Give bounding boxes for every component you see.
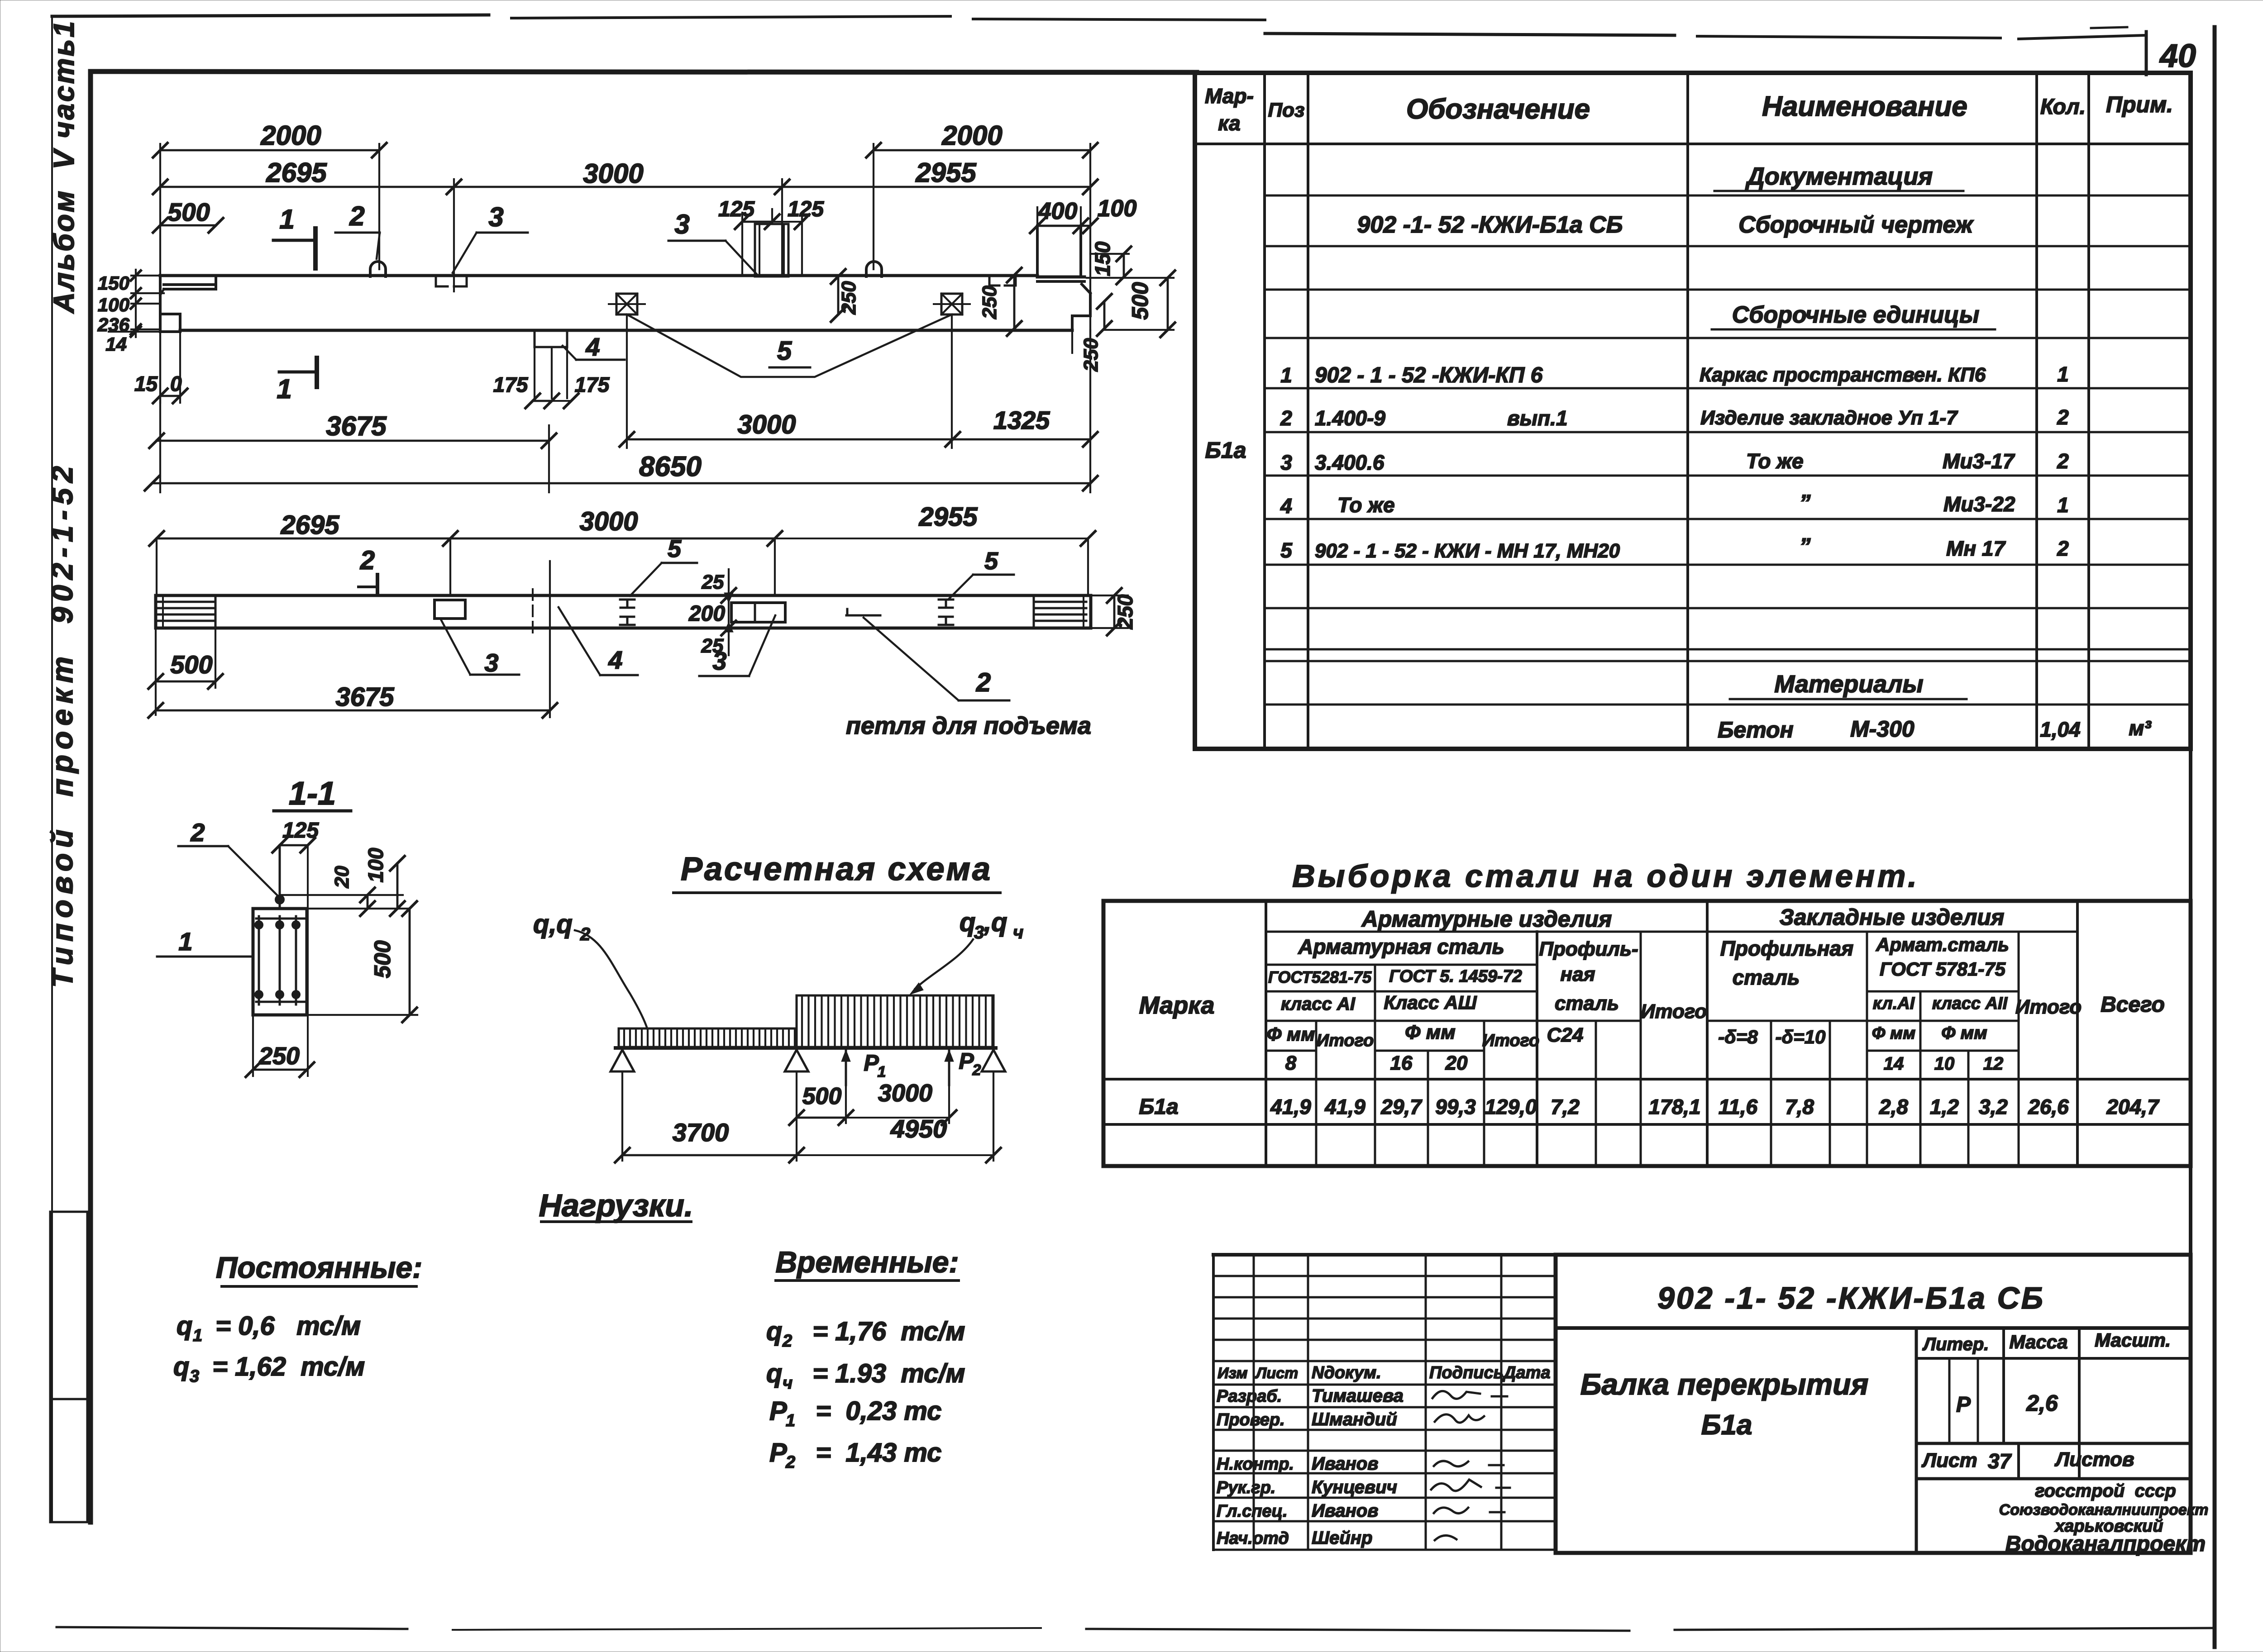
svg-text:3: 3 — [674, 209, 689, 239]
svg-text:Класс АШ: Класс АШ — [1384, 992, 1477, 1013]
svg-text:1: 1 — [2057, 362, 2069, 386]
svg-text:3: 3 — [190, 1367, 199, 1386]
svg-text:Сборочный чертеж: Сборочный чертеж — [1738, 212, 1974, 238]
svg-text:14: 14 — [1884, 1054, 1904, 1074]
svg-text:175: 175 — [493, 373, 529, 396]
svg-text:Листов: Листов — [2054, 1448, 2134, 1471]
svg-text:Nдокум.: Nдокум. — [1312, 1363, 1381, 1382]
svg-text:P: P — [769, 1396, 787, 1426]
svg-text:26,6: 26,6 — [2028, 1095, 2069, 1119]
svg-text:100: 100 — [98, 294, 129, 315]
svg-text:1: 1 — [878, 1063, 886, 1081]
svg-text:= 0,6 тс/м: = 0,6 тс/м — [208, 1311, 361, 1341]
svg-text:Закладные изделия: Закладные изделия — [1780, 905, 2005, 930]
svg-text:Нагрузки.: Нагрузки. — [539, 1188, 693, 1223]
svg-text:q: q — [766, 1359, 782, 1388]
svg-text:Водоканалпроект: Водоканалпроект — [2005, 1532, 2206, 1556]
svg-text:Материалы: Материалы — [1774, 671, 1923, 698]
svg-text:Изм: Изм — [1217, 1365, 1248, 1382]
svg-text:3000: 3000 — [737, 410, 796, 439]
svg-text:2695: 2695 — [280, 510, 339, 540]
svg-text:Наименование: Наименование — [1762, 91, 1967, 122]
svg-text:16: 16 — [1390, 1052, 1413, 1074]
svg-text:P: P — [864, 1050, 879, 1076]
svg-text:5: 5 — [984, 547, 998, 575]
svg-text:1: 1 — [2057, 493, 2069, 517]
svg-text:2: 2 — [2057, 537, 2069, 560]
svg-text:Выборка стали на один элеме: Выборка стали на один элемент. — [1292, 858, 1919, 894]
svg-text:вып.1: вып.1 — [1507, 406, 1568, 430]
svg-text:7,2: 7,2 — [1551, 1095, 1580, 1119]
svg-text:1325: 1325 — [993, 406, 1050, 434]
svg-text:2: 2 — [1280, 406, 1292, 430]
svg-text:150: 150 — [98, 272, 129, 294]
svg-text:м³: м³ — [2129, 716, 2152, 740]
svg-text:500: 500 — [170, 650, 212, 679]
svg-text:-δ=10: -δ=10 — [1776, 1026, 1826, 1047]
svg-text:Б1а: Б1а — [1205, 438, 1246, 463]
svg-text:3000: 3000 — [579, 507, 638, 536]
svg-text:Итого: Итого — [1641, 1000, 1707, 1023]
svg-text:1: 1 — [178, 927, 192, 956]
svg-text:Подпись: Подпись — [1429, 1363, 1504, 1382]
svg-text:5: 5 — [1280, 538, 1293, 562]
svg-text:4: 4 — [1280, 494, 1292, 518]
svg-text:Б1а: Б1а — [1701, 1409, 1752, 1441]
svg-text:Арматурные изделия: Арматурные изделия — [1361, 906, 1612, 932]
svg-text:Расчетная схема: Расчетная схема — [681, 851, 992, 887]
svg-text:Каркас пространствен. КП6: Каркас пространствен. КП6 — [1700, 364, 1986, 386]
svg-text:3: 3 — [488, 202, 503, 232]
svg-text:Итого: Итого — [1482, 1031, 1539, 1050]
svg-text:41,9: 41,9 — [1270, 1095, 1311, 1119]
svg-text:5: 5 — [668, 535, 682, 562]
svg-text:500: 500 — [370, 940, 395, 978]
svg-text:125: 125 — [788, 197, 824, 221]
svg-text:q: q — [766, 1317, 782, 1346]
svg-text:Лист: Лист — [1921, 1449, 1977, 1471]
svg-text:Шейнр: Шейнр — [1312, 1528, 1372, 1548]
svg-text:14: 14 — [105, 333, 127, 355]
svg-text:250: 250 — [1113, 594, 1137, 629]
svg-text:500: 500 — [1127, 282, 1153, 320]
svg-text:Типовой проект 902-1-52: Типовой проект 902-1-52 — [45, 461, 79, 988]
svg-text:10: 10 — [1934, 1054, 1955, 1074]
svg-text:1.400-9: 1.400-9 — [1315, 406, 1385, 430]
svg-text:-δ=8: -δ=8 — [1718, 1026, 1758, 1047]
svg-text:2: 2 — [2057, 405, 2069, 429]
svg-text:2000: 2000 — [941, 120, 1002, 151]
svg-text:4: 4 — [608, 646, 622, 674]
svg-text:Ф мм: Ф мм — [1872, 1024, 1915, 1043]
svg-text:М-300: М-300 — [1850, 716, 1914, 742]
svg-text:q: q — [960, 908, 975, 937]
svg-text:2: 2 — [972, 1062, 981, 1079]
svg-text:С24: С24 — [1547, 1024, 1584, 1046]
svg-text:902 -1- 52 -КЖИ-Б1а СБ: 902 -1- 52 -КЖИ-Б1а СБ — [1357, 212, 1623, 238]
svg-text:3: 3 — [1280, 451, 1292, 474]
svg-text:11,6: 11,6 — [1719, 1095, 1758, 1119]
svg-text:Профильная: Профильная — [1720, 937, 1853, 960]
svg-text:Постоянные:: Постоянные: — [216, 1251, 422, 1284]
svg-text:= 1,62 тс/м: = 1,62 тс/м — [205, 1352, 365, 1381]
svg-text:Ф мм: Ф мм — [1267, 1024, 1315, 1045]
svg-text:Б1а: Б1а — [1139, 1095, 1178, 1119]
svg-text:1: 1 — [193, 1326, 202, 1345]
svg-text:Поз: Поз — [1268, 99, 1305, 121]
svg-text:кл.АІ: кл.АІ — [1873, 994, 1915, 1013]
svg-text:2955: 2955 — [918, 502, 978, 532]
svg-text:1,2: 1,2 — [1930, 1095, 1959, 1119]
svg-text:Нач.отд: Нач.отд — [1217, 1529, 1289, 1548]
svg-text:Ми3-22: Ми3-22 — [1943, 492, 2015, 516]
svg-text:100: 100 — [364, 847, 387, 882]
svg-text:Ф мм: Ф мм — [1941, 1023, 1987, 1043]
svg-text:Ми3-17: Ми3-17 — [1943, 449, 2015, 473]
svg-text:250: 250 — [979, 286, 1001, 319]
svg-text:500: 500 — [802, 1083, 842, 1109]
svg-text:3000: 3000 — [878, 1080, 932, 1107]
svg-text:400: 400 — [1038, 198, 1078, 224]
svg-text:4: 4 — [585, 333, 600, 361]
svg-text:200: 200 — [688, 602, 725, 626]
svg-text:Тимашева: Тимашева — [1312, 1386, 1404, 1406]
svg-text:ГОСТ 5781-75: ГОСТ 5781-75 — [1880, 958, 2006, 980]
svg-text:То же: То же — [1337, 493, 1395, 517]
svg-text:8: 8 — [1285, 1052, 1297, 1074]
svg-text:175: 175 — [575, 373, 610, 396]
svg-text:ч: ч — [783, 1374, 793, 1393]
svg-text:2: 2 — [190, 818, 205, 847]
svg-text:Иванов: Иванов — [1312, 1501, 1378, 1521]
svg-text:1: 1 — [277, 374, 291, 404]
svg-text:41,9: 41,9 — [1324, 1095, 1365, 1119]
svg-text:Марка: Марка — [1139, 992, 1215, 1019]
svg-text:q: q — [173, 1352, 189, 1381]
svg-text:Прим.: Прим. — [2106, 92, 2173, 117]
svg-text:Армат.сталь: Армат.сталь — [1876, 934, 2009, 955]
svg-text:Мар-: Мар- — [1205, 84, 1254, 108]
svg-text:Документация: Документация — [1745, 163, 1933, 190]
svg-text:ная: ная — [1561, 963, 1595, 985]
svg-text:= 1,43 тс: = 1,43 тс — [801, 1438, 941, 1467]
svg-text:сталь: сталь — [1733, 966, 1800, 989]
svg-text:Изделие закладное Уп 1-7: Изделие закладное Уп 1-7 — [1700, 407, 1958, 429]
svg-text:3000: 3000 — [583, 158, 643, 189]
svg-text:Кунцевич: Кунцевич — [1312, 1477, 1397, 1497]
svg-text:1,04: 1,04 — [2040, 718, 2081, 741]
svg-text:q,q: q,q — [533, 909, 573, 939]
svg-text:P: P — [769, 1438, 787, 1467]
svg-text:2: 2 — [782, 1332, 792, 1351]
svg-text:ка: ка — [1218, 111, 1240, 135]
svg-text:15: 15 — [134, 372, 158, 395]
svg-text:5: 5 — [777, 336, 792, 366]
svg-text:902 - 1 - 52 - КЖИ - МН 17, МН: 902 - 1 - 52 - КЖИ - МН 17, МН20 — [1315, 540, 1620, 562]
svg-text:2,8: 2,8 — [1879, 1095, 1908, 1119]
svg-text:= 0,23 тс: = 0,23 тс — [801, 1396, 941, 1426]
svg-text:40: 40 — [2159, 38, 2196, 74]
svg-text:3700: 3700 — [673, 1118, 729, 1147]
svg-text:100: 100 — [1098, 195, 1137, 222]
svg-text:= 1,76 тс/м: = 1,76 тс/м — [798, 1317, 965, 1346]
svg-text:250: 250 — [258, 1043, 300, 1070]
svg-text:125: 125 — [282, 819, 319, 843]
svg-text:,q: ,q — [983, 908, 1007, 937]
svg-text:2695: 2695 — [266, 157, 327, 188]
svg-text:ГОСТ5281-75: ГОСТ5281-75 — [1268, 968, 1372, 986]
svg-text:Бетон: Бетон — [1718, 717, 1794, 743]
svg-text:Профиль-: Профиль- — [1539, 938, 1638, 960]
svg-text:= 1.93 тс/м: = 1.93 тс/м — [798, 1359, 965, 1388]
svg-text:Р: Р — [1956, 1393, 1971, 1417]
svg-text:4950: 4950 — [890, 1114, 947, 1143]
svg-text:25: 25 — [702, 571, 724, 593]
svg-text:3.400.6: 3.400.6 — [1315, 451, 1385, 474]
svg-text:12: 12 — [1983, 1054, 2004, 1074]
svg-text:Союзводоканалниипроект: Союзводоканалниипроект — [1999, 1501, 2209, 1519]
svg-text:0: 0 — [170, 372, 182, 395]
svg-text:236: 236 — [97, 314, 130, 335]
svg-text:37: 37 — [1988, 1449, 2012, 1473]
svg-text:Обозначение: Обозначение — [1406, 94, 1590, 125]
svg-text:Мн 17: Мн 17 — [1946, 537, 2006, 560]
svg-text:госстрой ссср: госстрой ссср — [2035, 1481, 2176, 1501]
svg-text:2955: 2955 — [915, 157, 977, 188]
svg-text:q: q — [177, 1311, 192, 1341]
svg-text:2: 2 — [976, 668, 991, 697]
svg-text:902 - 1 - 52 -КЖИ-КП 6: 902 - 1 - 52 -КЖИ-КП 6 — [1315, 363, 1543, 387]
svg-text:250: 250 — [1080, 338, 1102, 372]
svg-text:Масшт.: Масшт. — [2095, 1329, 2171, 1351]
svg-text:петля для подъема: петля для подъема — [846, 712, 1091, 739]
svg-text:Кол.: Кол. — [2040, 95, 2086, 119]
svg-text:1: 1 — [786, 1411, 795, 1430]
svg-text:”: ” — [1800, 533, 1811, 559]
svg-text:3: 3 — [974, 923, 984, 943]
svg-text:Сборочные единицы: Сборочные единицы — [1732, 302, 1980, 328]
svg-text:500: 500 — [167, 198, 210, 226]
svg-text:29,7: 29,7 — [1380, 1095, 1423, 1119]
svg-text:7,8: 7,8 — [1785, 1095, 1814, 1119]
svg-text:Н.контр.: Н.контр. — [1217, 1455, 1294, 1474]
svg-text:Итого: Итого — [1317, 1031, 1374, 1050]
svg-text:129,0: 129,0 — [1485, 1095, 1537, 1119]
svg-text:Дата: Дата — [1502, 1363, 1551, 1382]
svg-text:204,7: 204,7 — [2106, 1095, 2160, 1119]
svg-text:класс АІ: класс АІ — [1281, 994, 1356, 1014]
svg-text:3675: 3675 — [326, 411, 387, 441]
svg-text:3: 3 — [484, 648, 498, 677]
svg-text:Балка перекрытия: Балка перекрытия — [1580, 1367, 1869, 1401]
svg-text:Литер.: Литер. — [1922, 1334, 1989, 1354]
svg-text:250: 250 — [838, 281, 860, 315]
svg-text:сталь: сталь — [1555, 992, 1619, 1014]
svg-text:ч: ч — [1013, 923, 1023, 943]
svg-text:1: 1 — [279, 204, 294, 234]
svg-text:Шмандий: Шмандий — [1312, 1409, 1397, 1429]
svg-text:2: 2 — [2057, 449, 2069, 473]
svg-text:Лист: Лист — [1255, 1365, 1298, 1382]
svg-text:2: 2 — [349, 201, 364, 231]
svg-text:Гл.спец.: Гл.спец. — [1217, 1502, 1288, 1521]
svg-text:класс АІІ: класс АІІ — [1932, 994, 2008, 1013]
svg-text:То же: То же — [1746, 449, 1804, 473]
svg-text:2: 2 — [360, 546, 375, 575]
svg-text:99,3: 99,3 — [1435, 1095, 1476, 1119]
svg-text:2: 2 — [785, 1453, 795, 1472]
svg-text:Альбом V часть1: Альбом V часть1 — [48, 19, 80, 314]
svg-text:2,6: 2,6 — [2026, 1390, 2058, 1416]
svg-text:Масса: Масса — [2010, 1331, 2068, 1352]
svg-text:ГОСТ 5. 1459-72: ГОСТ 5. 1459-72 — [1389, 967, 1522, 986]
svg-text:20: 20 — [331, 866, 353, 888]
svg-text:178,1: 178,1 — [1648, 1095, 1700, 1119]
svg-text:8650: 8650 — [639, 451, 702, 482]
svg-text:3675: 3675 — [335, 682, 394, 712]
svg-text:3: 3 — [712, 647, 726, 675]
svg-text:3,2: 3,2 — [1979, 1095, 2008, 1119]
svg-text:Рук.гр.: Рук.гр. — [1217, 1478, 1275, 1497]
svg-text:Иванов: Иванов — [1312, 1454, 1378, 1474]
svg-text:Итого: Итого — [2015, 996, 2082, 1018]
svg-text:Всего: Всего — [2101, 993, 2165, 1017]
svg-text:Арматурная сталь: Арматурная сталь — [1298, 935, 1504, 958]
svg-text:1: 1 — [1280, 363, 1292, 387]
svg-text:20: 20 — [1445, 1052, 1468, 1074]
svg-text:Ф мм: Ф мм — [1405, 1021, 1456, 1043]
svg-text:902 -1- 52 -КЖИ-Б1а СБ: 902 -1- 52 -КЖИ-Б1а СБ — [1657, 1281, 2045, 1315]
svg-text:P: P — [959, 1048, 974, 1074]
svg-text:”: ” — [1800, 490, 1811, 515]
svg-text:2000: 2000 — [260, 120, 321, 151]
svg-text:125: 125 — [718, 197, 755, 221]
svg-text:Провер.: Провер. — [1217, 1410, 1285, 1429]
svg-text:Временные:: Временные: — [776, 1245, 959, 1279]
svg-text:150: 150 — [1091, 241, 1114, 276]
svg-text:1-1: 1-1 — [289, 776, 336, 812]
svg-text:Разраб.: Разраб. — [1217, 1387, 1282, 1406]
